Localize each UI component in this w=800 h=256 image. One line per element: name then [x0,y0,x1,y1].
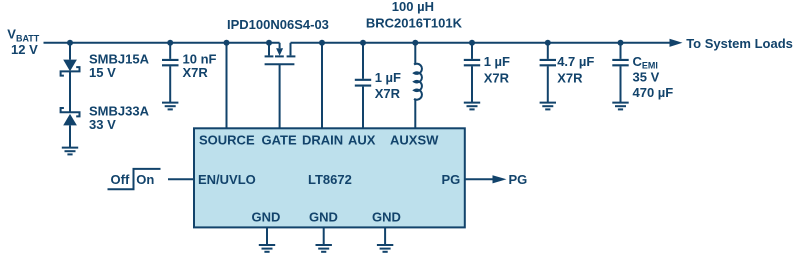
svg-text:X7R: X7R [375,86,401,101]
arrow to system loads [670,39,683,47]
wire 4.7uF top [547,43,549,59]
svg-text:4.7 µF: 4.7 µF [557,54,594,69]
ground GND2 [316,245,332,252]
svg-text:X7R: X7R [183,65,209,80]
svg-text:EN/UVLO: EN/UVLO [198,172,256,187]
node AUXSW junction [412,40,418,46]
svg-text:BRC2016T101K: BRC2016T101K [366,16,463,31]
svg-text:SOURCE: SOURCE [199,133,255,148]
switch off/on step [108,169,161,189]
wire DRAIN pin [321,43,323,129]
svg-text:100 µH: 100 µH [392,0,434,14]
wire 4.7uF bottom [547,66,549,102]
svg-text:Off: Off [111,172,130,187]
wire diode branch top [69,43,71,60]
ground diode branch [62,148,78,155]
inductor L1 100uH [414,43,422,129]
wire GATE pin [279,64,281,128]
svg-text:AUX: AUX [348,133,376,148]
wire SOURCE pin [226,43,228,129]
svg-text:GND: GND [309,209,338,224]
ground GND3 [377,245,393,252]
svg-text:15 V: 15 V [89,65,116,80]
capacitor C3 1uF output [464,60,480,65]
capacitor C4 4.7uF [540,60,556,65]
node SOURCE junction [224,40,230,46]
ground GND1 [259,245,275,252]
wire GND1 [266,227,268,245]
capacitor C2 1uF AUX [355,80,371,86]
svg-text:35 V: 35 V [633,69,660,84]
svg-text:1 µF: 1 µF [375,70,401,85]
capacitor CEMI 470uF [612,60,628,65]
svg-text:X7R: X7R [484,70,510,85]
svg-text:LT8672: LT8672 [308,172,352,187]
svg-text:IPD100N06S4-03: IPD100N06S4-03 [227,17,329,32]
node 4.7uF junction [545,40,551,46]
svg-text:On: On [136,172,154,187]
wire AUX bottom [362,87,364,129]
wire PG pin [465,178,493,180]
svg-text:GATE: GATE [262,133,297,148]
svg-text:GND: GND [372,209,401,224]
node DRAIN junction [319,40,325,46]
node 1uF output junction [469,40,475,46]
diode D2 SMBJ33A [61,108,80,125]
arrow PG [493,175,507,183]
wire GND2 [323,227,325,245]
ground CEMI [612,103,628,110]
svg-text:1 µF: 1 µF [484,54,510,69]
node AUX junction [360,40,366,46]
svg-text:470 µF: 470 µF [633,85,674,100]
wire between diodes [69,71,71,112]
wire top rail left segment [44,42,280,44]
diode D1 SMBJ15A [61,60,80,76]
wire 10nF top [169,43,171,59]
capacitor C1 10nF [162,60,179,65]
wire 10nF bottom [169,66,171,102]
ground 4.7uF [540,103,556,110]
svg-text:DRAIN: DRAIN [302,133,343,148]
svg-text:PG: PG [509,172,528,187]
svg-text:33 V: 33 V [89,117,116,132]
svg-text:GND: GND [252,209,281,224]
wire AUX top [362,43,364,79]
svg-text:12 V: 12 V [11,42,38,57]
svg-text:To System Loads: To System Loads [686,36,793,51]
wire CEMI top [620,43,622,59]
ground 1uF output [464,103,480,110]
wire 1uF out bottom [471,66,473,102]
wire GND3 [384,227,386,245]
svg-text:PG: PG [442,172,461,187]
node CEMI junction [618,40,624,46]
wire diode branch bottom [69,125,71,147]
wire CEMI bottom [620,66,622,102]
svg-text:X7R: X7R [557,70,583,85]
wire 1uF out top [471,43,473,59]
svg-text:CEMI: CEMI [633,54,658,71]
op-amp U1 LT8672 block [194,128,465,227]
wire EN/UVLO pin [168,178,194,180]
node MOSFET source junction [266,40,272,46]
svg-text:VBATT: VBATT [7,27,40,44]
node battery junction [67,40,73,46]
node 10nF junction [167,40,173,46]
wire top rail right segment [291,42,671,44]
svg-text:AUXSW: AUXSW [390,133,439,148]
transistor Q1 IPD100N06S4-03 [265,43,296,65]
ground 10nF [162,103,178,110]
